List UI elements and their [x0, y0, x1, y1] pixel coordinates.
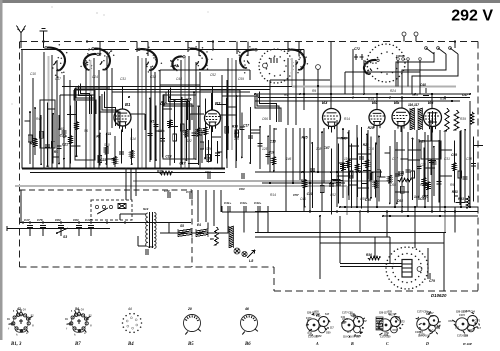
wire mains bottom line [20, 228, 110, 230]
node junction r18 [382, 215, 384, 217]
output box right [443, 232, 445, 291]
wire osc rail [150, 91, 250, 93]
caption A [315, 341, 319, 346]
wire lower vertical 5 [414, 207, 416, 233]
electrolytic C44 [254, 201, 262, 212]
svg-text:116,117: 116,117 [408, 103, 419, 107]
tuning capacitor fan C5 [288, 49, 308, 74]
svg-text:B: B [350, 341, 354, 346]
tuning coil fan left of S6 [80, 53, 99, 74]
svg-text:R19: R19 [368, 97, 374, 101]
loudspeaker dotted cone [385, 246, 429, 289]
svg-text:B4: B4 [127, 342, 134, 347]
wire step bundle 1 [74, 83, 96, 114]
svg-text:117: 117 [330, 327, 335, 330]
svg-text:R28: R28 [368, 126, 374, 130]
svg-text:R24: R24 [390, 89, 396, 93]
mains transformer core [150, 212, 153, 248]
wire B3 anode drop [304, 86, 324, 212]
svg-text:B1: B1 [125, 102, 131, 107]
svg-text:R49: R49 [58, 127, 64, 131]
svg-text:C52: C52 [148, 245, 154, 249]
node junction r10 [444, 97, 446, 99]
wire top stubs [100, 42, 299, 57]
selector contact 3 [109, 205, 112, 208]
node mains junction 5 [78, 221, 80, 223]
socket caption B6 [244, 342, 251, 347]
wire from top rail down to B3 grid [213, 42, 304, 111]
svg-text:H 46P: H 46P [462, 342, 473, 346]
tuning capacitor fan C2 [92, 48, 115, 71]
coil unit E [448, 310, 481, 338]
valve B3 [323, 109, 341, 133]
svg-text:C45: C45 [300, 197, 306, 201]
node junction r2 [128, 96, 130, 98]
mains transformer primary [146, 213, 148, 247]
rotary switch S1 dotted ring [258, 48, 294, 83]
capacitor C64 [239, 173, 245, 191]
gram jack [316, 65, 321, 86]
svg-text:S13: S13 [143, 207, 149, 211]
svg-text:116: 116 [234, 137, 239, 141]
svg-text:20: 20 [187, 307, 192, 311]
stage 4 component group [250, 126, 277, 172]
label R27 [398, 173, 404, 177]
svg-text:C17: C17 [243, 123, 249, 127]
rotary switch S2 dotted ring [366, 43, 406, 83]
screened lead vertical 6 [291, 58, 293, 86]
svg-text:B7: B7 [74, 342, 81, 347]
wire column stage 5 [228, 58, 236, 168]
stage 3 component group [148, 91, 221, 165]
valve B4 [369, 110, 385, 132]
wire power left rail [20, 190, 22, 223]
wire step bundle 3 [255, 92, 281, 122]
label B5 [394, 100, 400, 105]
node mains junction 2 [29, 221, 31, 223]
socket pin no 46 [244, 307, 249, 311]
label C65 [397, 199, 403, 203]
fuse [118, 204, 126, 209]
screened lead vertical 2 [90, 60, 92, 168]
rectifier stack E4b [196, 223, 208, 237]
svg-text:110: 110 [344, 157, 349, 161]
svg-text:R25: R25 [302, 136, 308, 140]
svg-text:C58: C58 [384, 332, 389, 335]
valve B1 [114, 109, 131, 132]
screened lead vertical 1 [48, 56, 50, 168]
pick-up jack 2 [414, 32, 418, 42]
screened lead horizontal AF [292, 85, 456, 87]
capacitor C38 [186, 190, 192, 199]
screened lead vertical 5 [231, 58, 233, 150]
tuning capacitor fan C3 [138, 46, 162, 72]
svg-text:R6: R6 [210, 237, 214, 241]
svg-text:C41: C41 [455, 327, 460, 330]
svg-text:S10: S10 [104, 143, 110, 147]
svg-text:R44: R44 [36, 117, 42, 121]
node junction r14 [386, 211, 388, 213]
stage 1 component group [25, 101, 81, 168]
socket pin no 20 [187, 307, 192, 311]
svg-text:44: 44 [127, 307, 132, 311]
node junction r19 [125, 168, 127, 170]
svg-text:S17: S17 [325, 313, 330, 316]
svg-text:C79: C79 [429, 279, 435, 283]
chassis boundary top (dashed) [20, 41, 478, 43]
svg-text:C59: C59 [238, 77, 244, 81]
coil unit C [376, 311, 405, 339]
svg-text:C65: C65 [397, 199, 403, 203]
svg-text:C59: C59 [420, 197, 426, 201]
wire signal path 1 [270, 80, 330, 120]
node mains junction 3 [42, 221, 44, 223]
switch S3 [56, 228, 68, 239]
svg-text:C44+: C44+ [254, 201, 262, 205]
svg-text:C: C [386, 341, 389, 346]
node junction r25 [43, 168, 45, 170]
wire drop to power 1 [125, 169, 127, 201]
node mains junction 6 [90, 221, 92, 223]
svg-text:C17: C17 [179, 162, 185, 166]
svg-text:C10: C10 [368, 147, 374, 151]
wire output top lines [255, 233, 446, 238]
svg-text:L8: L8 [249, 259, 253, 263]
svg-text:146: 146 [286, 157, 292, 161]
electrolytic C41 [224, 201, 232, 212]
transformer lead bottom [138, 236, 146, 246]
svg-text:E4: E4 [197, 223, 201, 227]
valve B5 [392, 108, 410, 132]
socket pin no 44 [127, 307, 132, 311]
capacitor C17 [24, 218, 33, 236]
svg-text:C171: C171 [389, 314, 395, 317]
wire mid rail right 3 [383, 215, 478, 217]
node junction r6 [352, 97, 354, 99]
node junction r17 [319, 215, 321, 217]
socket caption B5 [187, 342, 194, 347]
title 292 V [451, 8, 493, 25]
svg-text:C64: C64 [239, 187, 245, 191]
selector arm [97, 208, 108, 214]
earth terminal [40, 29, 48, 49]
wire rvc leads [408, 120, 452, 175]
svg-text:C78: C78 [37, 218, 43, 222]
screened lead horizontal 2 [133, 180, 390, 182]
wave switch contacts [425, 47, 458, 54]
wire mesh stage2-3 [112, 85, 200, 128]
svg-text:C10: C10 [270, 140, 276, 144]
svg-text:C172: C172 [399, 320, 405, 323]
svg-text:R9: R9 [450, 183, 454, 187]
chassis boundary left (dashed) [19, 42, 21, 268]
svg-text:C66: C66 [390, 183, 396, 187]
svg-text:C17: C17 [392, 157, 398, 161]
wire screen rail long [62, 86, 292, 88]
wire column stage 6 [288, 58, 296, 125]
valve socket B7 [65, 308, 92, 336]
node junction r27 [330, 171, 332, 173]
trimmer C72 [354, 47, 364, 60]
stage 2 component group [96, 129, 133, 167]
svg-text:C84: C84 [470, 310, 475, 313]
chassis boundary right (dashed) [477, 42, 479, 292]
node junction r21 [95, 168, 97, 170]
svg-text:C52: C52 [210, 73, 216, 77]
svg-text:C41: C41 [432, 330, 437, 333]
wire column stage 2 [86, 56, 107, 168]
capacitor C79 [428, 273, 435, 283]
capacitor C83 [55, 218, 64, 236]
chassis boundary bottom-right (dashed) [274, 290, 478, 292]
screened lead horizontal 3 [15, 186, 347, 215]
label B4 [372, 100, 378, 105]
svg-text:B6: B6 [244, 342, 251, 347]
node junction r15 [414, 206, 416, 208]
svg-text:C31: C31 [120, 77, 126, 81]
tuning capacitor fan C4 [188, 46, 213, 70]
wire column stage 1 [44, 52, 57, 168]
coil can stage 2 [75, 90, 95, 160]
node junction r5 [330, 93, 332, 95]
wire AF rail arrow [262, 182, 345, 184]
output box left [319, 243, 321, 279]
stage B2 right group [217, 95, 260, 164]
wire lower vertical 3 [359, 212, 361, 233]
chassis bus [22, 168, 225, 170]
rectifier stack E4a [178, 224, 192, 237]
svg-text:R1: R1 [54, 150, 58, 154]
svg-text:S30: S30 [463, 310, 468, 313]
svg-text:R6: R6 [96, 135, 100, 139]
svg-text:C172: C172 [459, 314, 465, 317]
svg-text:117: 117 [347, 331, 352, 334]
output transformer primary coil [445, 108, 459, 131]
svg-text:S17: S17 [378, 322, 383, 325]
wire extra verticals A [33, 75, 70, 168]
coil unit A [306, 311, 335, 339]
svg-text:C38: C38 [466, 157, 472, 161]
wire b3 riser [331, 42, 364, 109]
svg-text:54: 54 [75, 307, 79, 311]
wire B2 anode [221, 115, 237, 130]
wire mesh stage3-4 [200, 90, 260, 130]
svg-text:S3: S3 [63, 235, 67, 239]
node junction r20 [60, 168, 62, 170]
svg-text:C57: C57 [293, 193, 299, 197]
chassis boundary bottom-left (dashed) [20, 266, 275, 268]
svg-text:R39: R39 [460, 117, 466, 121]
svg-text:C172: C172 [419, 334, 425, 337]
node junction r0 [88, 49, 90, 51]
resistor R27 zigzag [398, 178, 411, 182]
node junction r28 [359, 171, 361, 173]
voltage selector box (dashed) [91, 200, 132, 220]
svg-text:C84: C84 [315, 313, 320, 316]
tuning coil fan left of S7 [238, 46, 257, 73]
wire grid B1 [100, 112, 114, 130]
smoothing choke [229, 226, 234, 248]
label C47 [462, 93, 468, 97]
svg-text:C58: C58 [464, 335, 469, 338]
svg-text:C21: C21 [62, 142, 68, 146]
svg-text:C41: C41 [396, 316, 401, 319]
coil unit B [341, 313, 368, 339]
stage B2 lower group [199, 131, 222, 163]
svg-text:S30: S30 [377, 327, 382, 330]
svg-text:C24: C24 [92, 75, 98, 79]
svg-text:292 V: 292 V [451, 8, 493, 25]
caption D [425, 341, 429, 346]
node mains junction 4 [60, 221, 62, 223]
svg-text:R4: R4 [420, 183, 424, 187]
node top rail junction 3 [454, 40, 456, 42]
screened lead vertical right [444, 130, 446, 232]
svg-text:S26: S26 [206, 147, 212, 151]
socket pin no 54 [75, 307, 79, 311]
node junction r13 [359, 211, 361, 213]
chassis boundary step (dashed) [273, 267, 275, 291]
svg-text:R14: R14 [270, 193, 276, 197]
svg-text:R16: R16 [232, 125, 238, 129]
mains transformer secondary [154, 213, 156, 249]
wire HT rail right a [255, 93, 470, 95]
svg-text:C41: C41 [341, 316, 346, 319]
node junction r24 [212, 168, 214, 170]
wire B4 drop [377, 126, 432, 212]
svg-text:C30: C30 [164, 189, 170, 193]
node junction r22 [141, 168, 143, 170]
valve B6 [424, 109, 442, 133]
svg-text:S17: S17 [356, 335, 361, 338]
wire mid rail right [340, 206, 478, 208]
node mains junction 7 [106, 221, 108, 223]
svg-text:C17: C17 [24, 218, 30, 222]
label B6 [428, 100, 434, 105]
capacitor C137 [85, 218, 94, 236]
svg-text:R48: R48 [157, 169, 163, 173]
node mains junction 1 [22, 221, 24, 223]
svg-text:R15: R15 [204, 157, 210, 161]
node junction r12 [339, 206, 341, 208]
svg-text:A: A [315, 341, 319, 346]
dial lamp L8 arrow [247, 250, 255, 263]
antenna [17, 26, 26, 49]
wire right horiz stubs [337, 138, 452, 192]
valve socket B5 [184, 315, 201, 335]
resistor R35 [470, 112, 474, 124]
wire lower vertical 7 [469, 101, 471, 207]
output box top [320, 242, 444, 244]
svg-text:B5: B5 [187, 342, 194, 347]
socket caption B7 [74, 342, 81, 347]
svg-text:R4: R4 [284, 93, 288, 97]
svg-text:108: 108 [316, 147, 322, 151]
wire column stage 4 [181, 56, 196, 168]
svg-text:C43+: C43+ [240, 201, 248, 205]
wire left rail [21, 50, 23, 169]
valve socket B6 [241, 315, 258, 335]
svg-text:42: 42 [16, 307, 21, 311]
switch row circles [396, 54, 421, 60]
wire right mesh extra [337, 120, 461, 212]
svg-text:C52: C52 [330, 193, 336, 197]
svg-text:R27: R27 [398, 173, 404, 177]
valve socket B4 (dotted) [122, 313, 143, 333]
svg-text:C67: C67 [393, 329, 398, 332]
wire HT rail right c [255, 100, 460, 102]
far right component group [451, 129, 483, 205]
label C48 [420, 83, 429, 98]
wire drop to power 3 [135, 169, 137, 197]
tuning capacitor fan C1 [45, 44, 68, 78]
electrolytic C43 [240, 201, 248, 212]
svg-text:46: 46 [244, 307, 249, 311]
svg-text:R36: R36 [366, 253, 372, 257]
svg-text:C48: C48 [420, 83, 426, 87]
svg-text:C45: C45 [176, 77, 182, 81]
svg-text:C41: C41 [307, 332, 312, 335]
svg-text:C58: C58 [353, 316, 358, 319]
caption B [350, 341, 354, 346]
selector contact 1 [95, 205, 98, 208]
wire extra verticals C [200, 72, 227, 168]
svg-text:C67: C67 [362, 320, 367, 323]
wire electrolytic rail [222, 206, 268, 212]
wire grid B2 [190, 114, 204, 130]
socket caption B1,3 [10, 342, 22, 347]
node junction r26 [301, 171, 303, 173]
svg-text:125: 125 [262, 147, 268, 151]
svg-text:110: 110 [234, 131, 239, 135]
svg-text:C72: C72 [354, 47, 360, 51]
capacitor C62 [205, 170, 211, 179]
svg-text:C171: C171 [306, 317, 312, 320]
pick-up jack 1 [402, 32, 406, 42]
stage B3 component group [333, 126, 386, 209]
wire step bundle 4 [100, 92, 120, 126]
capacitor C84 [73, 218, 82, 236]
label S13 [143, 207, 149, 211]
wire right top mesh [160, 70, 250, 92]
resistor R33 zigzag [466, 196, 470, 208]
svg-text:R14: R14 [344, 117, 350, 121]
label B2 [215, 101, 221, 106]
label C59 [420, 197, 426, 201]
wire speaker leads [340, 264, 402, 267]
svg-text:C172: C172 [316, 335, 322, 338]
label B3 [322, 100, 328, 105]
node junction r4 [299, 93, 301, 95]
svg-text:C171: C171 [474, 320, 480, 323]
svg-text:R46: R46 [341, 137, 347, 141]
coil unit D [415, 311, 441, 338]
resistor R36 [366, 253, 380, 260]
wire AVC rail [255, 171, 382, 173]
node junction r16 [444, 211, 446, 213]
wire mesh stage1-2 [60, 88, 110, 130]
svg-text:R33: R33 [458, 197, 464, 201]
svg-text:S17: S17 [430, 315, 435, 318]
right IF component group [385, 135, 442, 208]
svg-text:S6: S6 [84, 129, 88, 133]
svg-text:D10620: D10620 [431, 293, 447, 298]
svg-text:C31: C31 [444, 157, 450, 161]
node junction r3 [254, 93, 256, 95]
caption C [386, 341, 389, 346]
svg-text:C62: C62 [205, 170, 211, 174]
svg-text:C84: C84 [341, 322, 346, 325]
